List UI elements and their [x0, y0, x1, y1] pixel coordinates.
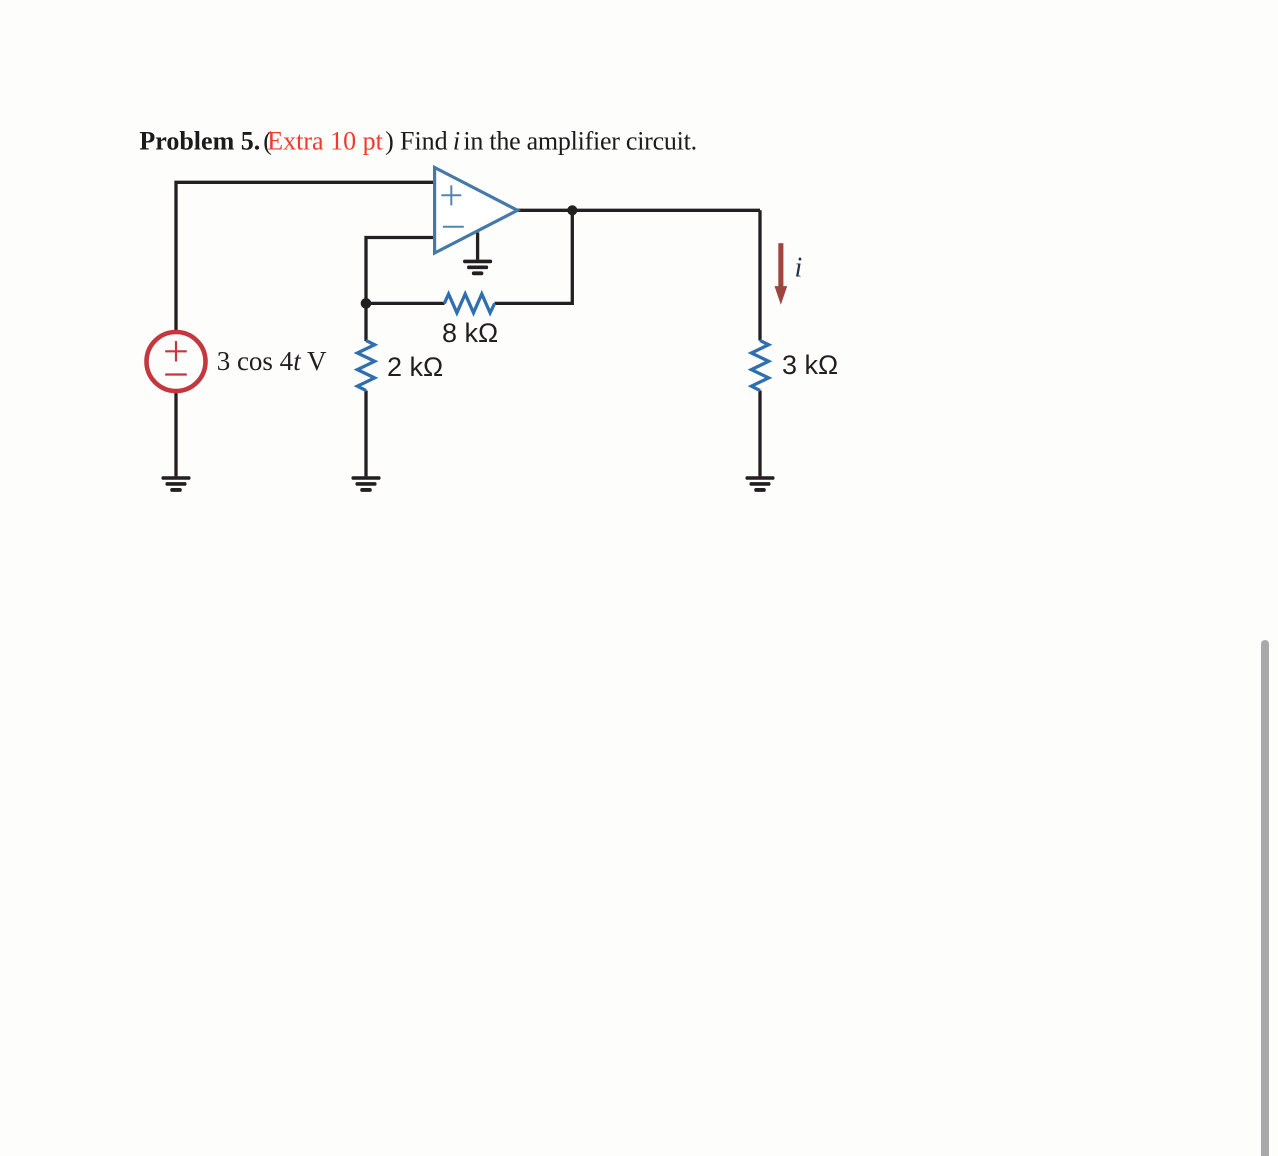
- svg-text:Problem 5.(Extra 10 pt)Findiin: Problem 5.(Extra 10 pt)Findiin the ampli…: [139, 127, 696, 156]
- svg-text:3 cos 4t V: 3 cos 4t V: [217, 346, 327, 376]
- svg-text:3 kΩ: 3 kΩ: [782, 350, 838, 380]
- svg-text:2 kΩ: 2 kΩ: [387, 352, 443, 382]
- svg-text:i: i: [795, 253, 803, 284]
- svg-text:8 kΩ: 8 kΩ: [442, 318, 498, 348]
